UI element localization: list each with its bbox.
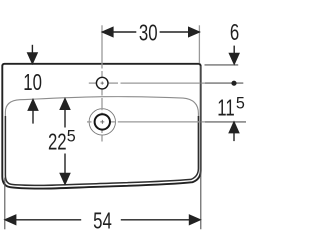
svg-text:30: 30 xyxy=(139,21,158,46)
svg-text:10: 10 xyxy=(23,71,42,96)
svg-text:5: 5 xyxy=(236,93,245,112)
svg-text:5: 5 xyxy=(67,126,76,145)
svg-text:54: 54 xyxy=(93,209,112,234)
svg-text:11: 11 xyxy=(217,96,234,121)
svg-text:22: 22 xyxy=(48,130,67,155)
svg-text:6: 6 xyxy=(230,21,239,46)
